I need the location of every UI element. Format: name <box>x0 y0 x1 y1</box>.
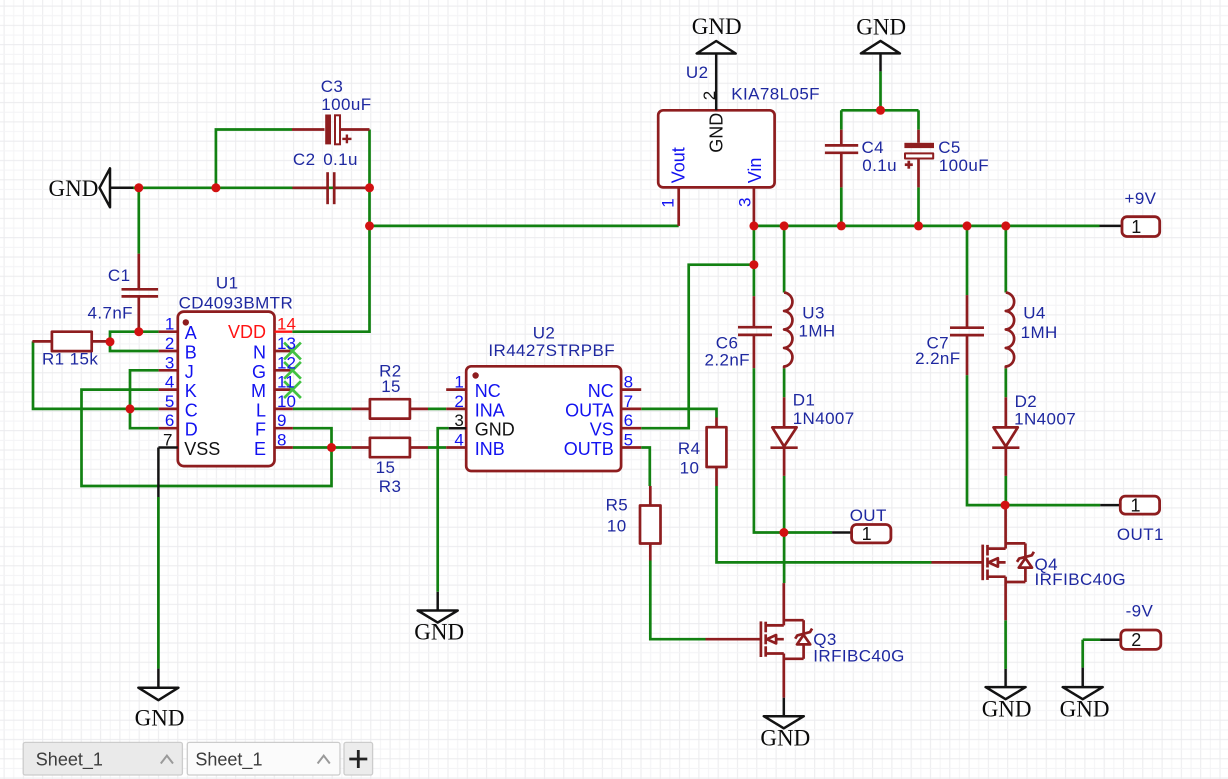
U1 pin numbers right <box>277 315 296 450</box>
svg-text:M: M <box>251 381 266 401</box>
junction GND flag node <box>134 183 143 192</box>
svg-text:1: 1 <box>1131 217 1141 237</box>
port -9V box <box>1121 630 1161 649</box>
inductor U4 <box>1006 293 1014 369</box>
wire pin10 L to R2 <box>293 408 352 411</box>
U2 driver pin numbers <box>454 373 463 450</box>
port stub +9V <box>1100 225 1123 228</box>
svg-text:2.2nF: 2.2nF <box>915 349 960 368</box>
wire R3 to INB <box>428 446 446 449</box>
svg-text:2: 2 <box>165 334 174 353</box>
svg-text:4: 4 <box>165 373 174 392</box>
wire VS riser <box>641 265 754 429</box>
svg-text:10: 10 <box>680 458 700 477</box>
svg-text:D2: D2 <box>1015 392 1038 411</box>
svg-text:U1: U1 <box>216 274 239 293</box>
svg-text:8: 8 <box>624 373 633 392</box>
svg-text:-9V: -9V <box>1126 602 1154 621</box>
junction OUT1 node <box>1001 501 1010 510</box>
ground flag B (U2 GND) <box>436 592 439 611</box>
svg-text:10: 10 <box>607 516 627 535</box>
wire +9V rail left segment <box>370 188 679 226</box>
junction C3 left / GND net <box>211 183 220 192</box>
junction C2 right / C3 right <box>365 183 374 192</box>
svg-text:VS: VS <box>590 420 614 440</box>
svg-text:C1: C1 <box>108 266 131 285</box>
svg-text:R3: R3 <box>379 477 402 496</box>
IC U2 driver body <box>466 366 621 471</box>
svg-text:G: G <box>252 362 266 382</box>
U2 driver pin stubs <box>446 388 466 391</box>
wire C1 top <box>137 188 140 254</box>
transistor Q3 <box>706 638 761 641</box>
ground flag G top (C4 C5) <box>861 41 900 54</box>
wire pin6 D drop <box>130 409 159 428</box>
svg-text:U2: U2 <box>533 323 556 342</box>
capacitor C7 <box>966 295 969 328</box>
junction OUT node <box>779 528 788 537</box>
resistor R1 <box>32 340 52 343</box>
svg-text:1: 1 <box>165 315 174 334</box>
svg-text:C5: C5 <box>938 138 961 157</box>
svg-text:IRFIBC40G: IRFIBC40G <box>813 646 904 665</box>
svg-text:9: 9 <box>277 411 286 430</box>
svg-text:2.2nF: 2.2nF <box>705 351 750 370</box>
svg-text:GND: GND <box>982 697 1032 722</box>
wire OUTA to R4 <box>641 409 716 418</box>
port stub -9V <box>1100 638 1121 641</box>
wire D1 to OUT node <box>783 476 786 533</box>
port OUT1 box <box>1120 496 1159 514</box>
wire C7 bottom to OUT1 node <box>967 375 1005 505</box>
svg-text:KIA78L05F: KIA78L05F <box>731 85 820 104</box>
svg-text:1MH: 1MH <box>1021 323 1058 342</box>
svg-text:GND: GND <box>760 726 810 751</box>
junction C4-C5 top GND <box>876 106 885 115</box>
svg-text:GND: GND <box>1060 697 1110 722</box>
svg-text:+9V: +9V <box>1125 189 1157 208</box>
U1 pin names right <box>228 322 266 459</box>
ground flag H left <box>100 168 111 207</box>
wire D2 to OUT1 node <box>1004 476 1007 505</box>
junction U3 top rail <box>780 221 789 230</box>
capacitor C6 <box>753 296 756 327</box>
wire +9V rail right segment <box>754 225 1100 228</box>
wire R1 node to pin1/pin2 <box>110 332 139 342</box>
svg-text:5: 5 <box>165 392 174 411</box>
wire Vin node down <box>753 226 756 296</box>
wire OUTB to R5 <box>641 448 650 487</box>
U2 driver pin3 GND stub <box>449 427 467 430</box>
wire U2 GND pin to flag B <box>438 428 449 592</box>
wire U4 to D2 <box>1004 368 1007 397</box>
port stub OUT1 <box>1100 504 1120 507</box>
junction C7 top rail <box>963 221 972 230</box>
svg-text:IR4427STRPBF: IR4427STRPBF <box>488 341 615 360</box>
svg-text:L: L <box>256 400 266 420</box>
svg-text:2: 2 <box>700 91 719 100</box>
diode D1 <box>783 397 786 427</box>
wire C4 top <box>840 110 843 129</box>
svg-text:A: A <box>185 323 197 343</box>
wire GND net top-left horizontal <box>133 186 370 189</box>
svg-text:1: 1 <box>862 524 872 544</box>
svg-text:1MH: 1MH <box>799 322 836 341</box>
transistor Q4 <box>932 561 983 564</box>
svg-text:1N4007: 1N4007 <box>1014 409 1076 428</box>
U1 pin7 VSS stub <box>158 446 177 449</box>
svg-text:U3: U3 <box>802 303 825 322</box>
U2 driver pin names <box>475 381 515 459</box>
svg-text:GND: GND <box>475 420 515 440</box>
svg-text:13: 13 <box>277 334 296 353</box>
capacitor C2 <box>292 186 327 189</box>
svg-text:1: 1 <box>454 373 463 392</box>
wire R2 to INA <box>428 408 446 411</box>
ground flag D (Q4) <box>1004 669 1007 687</box>
svg-text:U4: U4 <box>1023 303 1046 322</box>
resistor R5 <box>649 486 652 506</box>
U2 driver pin1 mark <box>472 372 478 378</box>
svg-text:6: 6 <box>165 411 174 430</box>
junction U4 top rail <box>1001 221 1010 230</box>
svg-text:NC: NC <box>588 381 614 401</box>
capacitor C5 polarized <box>917 130 920 143</box>
ground flag A (VSS) <box>157 669 160 688</box>
sheet tab 2 <box>187 742 340 775</box>
resistor R4 <box>715 418 718 428</box>
svg-text:N: N <box>253 343 266 363</box>
wire pin3 J drop <box>130 370 159 409</box>
svg-text:15: 15 <box>381 377 401 396</box>
svg-text:3: 3 <box>165 353 174 372</box>
svg-text:Vout: Vout <box>668 147 688 183</box>
resistor R3 <box>351 446 370 449</box>
svg-text:Sheet_1: Sheet_1 <box>195 750 262 771</box>
svg-text:C4: C4 <box>862 138 885 157</box>
add sheet button <box>344 742 373 775</box>
junction Vin node <box>749 221 758 230</box>
svg-text:2: 2 <box>454 392 463 411</box>
svg-text:1: 1 <box>1130 495 1140 515</box>
svg-text:11: 11 <box>277 373 295 392</box>
svg-text:0.1u: 0.1u <box>862 156 897 175</box>
svg-text:100uF: 100uF <box>321 95 371 114</box>
svg-text:B: B <box>185 343 197 363</box>
ground flag C (Q3) <box>783 698 786 717</box>
junction +9V rail left <box>365 221 374 230</box>
svg-text:4: 4 <box>454 431 463 450</box>
U2 regulator pin3 Vin <box>753 187 756 226</box>
wire VSS down <box>157 497 160 669</box>
junction C6 top / VS branch <box>749 260 758 269</box>
wire OUT node to Q3 drain <box>783 533 786 584</box>
resistor R2 <box>351 408 370 411</box>
svg-text:GND: GND <box>414 620 464 645</box>
svg-text:VSS: VSS <box>184 439 220 459</box>
svg-text:4.7nF: 4.7nF <box>88 304 133 323</box>
U1 pin numbers left <box>163 315 174 450</box>
svg-text:3: 3 <box>735 198 754 207</box>
svg-text:3: 3 <box>454 411 463 430</box>
svg-text:10: 10 <box>277 392 296 411</box>
wire U3 top <box>783 226 786 293</box>
svg-text:OUTB: OUTB <box>564 439 614 459</box>
svg-text:100uF: 100uF <box>939 156 989 175</box>
svg-text:OUT1: OUT1 <box>1117 525 1164 544</box>
wire C5 bottom <box>917 187 920 226</box>
junction pins 3-5-6 node <box>126 404 135 413</box>
port OUT box <box>852 525 891 543</box>
capacitor C1 <box>137 254 140 290</box>
port +9V box <box>1122 217 1160 237</box>
wire pin14 riser <box>292 226 369 332</box>
svg-text:CD4093BMTR: CD4093BMTR <box>179 293 294 312</box>
svg-text:R5: R5 <box>606 495 629 514</box>
svg-text:8: 8 <box>277 431 286 450</box>
wire C3 left drop <box>216 130 292 188</box>
svg-text:K: K <box>185 381 197 401</box>
wire R5 bottom to Q3 gate <box>650 561 705 640</box>
U1 pin stubs right <box>275 350 295 353</box>
wire Q4 source green <box>1004 620 1007 669</box>
svg-text:D1: D1 <box>793 390 816 409</box>
svg-text:GND: GND <box>49 176 99 201</box>
ground flag E (-9V) <box>1081 668 1084 688</box>
svg-text:6: 6 <box>624 411 633 430</box>
wire OUT node to port <box>784 531 832 534</box>
wire -9V port down <box>1083 638 1100 641</box>
svg-text:C: C <box>185 400 198 420</box>
wire pin4 K loop <box>82 390 332 486</box>
capacitor C3 plates <box>325 115 351 145</box>
port stub OUT <box>832 531 852 534</box>
IC U2 regulator body <box>658 110 774 187</box>
no-connect X pin11 <box>284 381 301 398</box>
svg-text:J: J <box>185 362 194 382</box>
svg-text:D: D <box>185 420 198 440</box>
U1 pin stubs left <box>159 330 178 333</box>
U1 pin1 mark <box>183 319 189 325</box>
svg-text:E: E <box>254 439 266 459</box>
svg-text:GND: GND <box>692 14 742 39</box>
svg-text:5: 5 <box>624 431 633 450</box>
svg-text:INB: INB <box>475 439 505 459</box>
wire R1 left loop down to C node <box>33 341 159 409</box>
wire U4 top <box>1004 226 1007 293</box>
sheet tab 1 <box>23 742 182 775</box>
wire C4 bottom <box>840 187 843 226</box>
svg-text:R4: R4 <box>678 439 701 458</box>
svg-text:C2: C2 <box>293 150 316 169</box>
svg-text:VDD: VDD <box>228 322 266 342</box>
svg-text:C3: C3 <box>321 77 344 96</box>
svg-text:GND: GND <box>856 14 906 39</box>
wire GND G drop <box>879 71 882 110</box>
wire C5 top <box>917 110 920 129</box>
wire pin9 F drop <box>293 428 332 447</box>
junction C5 bottom rail <box>914 221 923 230</box>
svg-text:U2: U2 <box>686 63 709 82</box>
capacitor C4 <box>840 130 843 146</box>
wire C4-C5 top link <box>841 109 918 112</box>
no-connect X pin13 <box>284 343 301 360</box>
svg-text:OUTA: OUTA <box>565 400 614 420</box>
pin14 red stub <box>275 331 293 333</box>
svg-text:15: 15 <box>376 458 396 477</box>
wire pin8 E to R3 <box>293 446 352 449</box>
svg-text:12: 12 <box>277 353 296 372</box>
U1 pin names left <box>184 323 220 459</box>
svg-text:0.1u: 0.1u <box>323 150 358 169</box>
svg-text:Vin: Vin <box>745 158 765 184</box>
svg-text:R1 15k: R1 15k <box>42 350 98 369</box>
U2 regulator pin1 Vout <box>677 187 680 226</box>
svg-text:INA: INA <box>475 400 505 420</box>
svg-text:GND: GND <box>706 113 726 153</box>
svg-text:7: 7 <box>163 431 172 450</box>
wire C6 bottom loop <box>754 368 784 532</box>
junction pins 8-9 / R3 node <box>327 443 336 452</box>
ground flag F top (U2 reg pin2) <box>697 41 736 54</box>
svg-text:NC: NC <box>475 381 501 401</box>
inductor U3 <box>784 293 792 369</box>
svg-text:OUT: OUT <box>850 506 887 525</box>
svg-text:GND: GND <box>135 705 185 730</box>
svg-text:14: 14 <box>277 315 296 334</box>
svg-text:7: 7 <box>624 392 633 411</box>
wire C1 to pin1 <box>139 330 159 333</box>
svg-text:2: 2 <box>1131 630 1141 650</box>
IC U1 body <box>178 312 275 467</box>
no-connect X pin12 <box>284 362 301 379</box>
U2 regulator rotated pin names <box>668 113 765 184</box>
junction R1 right node <box>106 337 115 346</box>
capacitor C3 pins <box>292 128 325 131</box>
wire U3 to D1 <box>783 368 786 397</box>
wire C7 top <box>966 226 969 295</box>
svg-text:1: 1 <box>658 198 677 207</box>
junction C1 bottom / pin1 <box>134 327 143 336</box>
svg-text:F: F <box>255 420 266 440</box>
diode D2 <box>1004 397 1007 427</box>
wire C3 right drop <box>368 130 371 188</box>
wire OUT1 node to port <box>1005 504 1100 507</box>
svg-text:Sheet_1: Sheet_1 <box>36 750 103 771</box>
svg-text:IRFIBC40G: IRFIBC40G <box>1035 570 1126 589</box>
wire R4 bottom to Q4 gate <box>717 486 932 562</box>
junction C4 bottom rail <box>837 221 846 230</box>
svg-text:1N4007: 1N4007 <box>793 409 855 428</box>
